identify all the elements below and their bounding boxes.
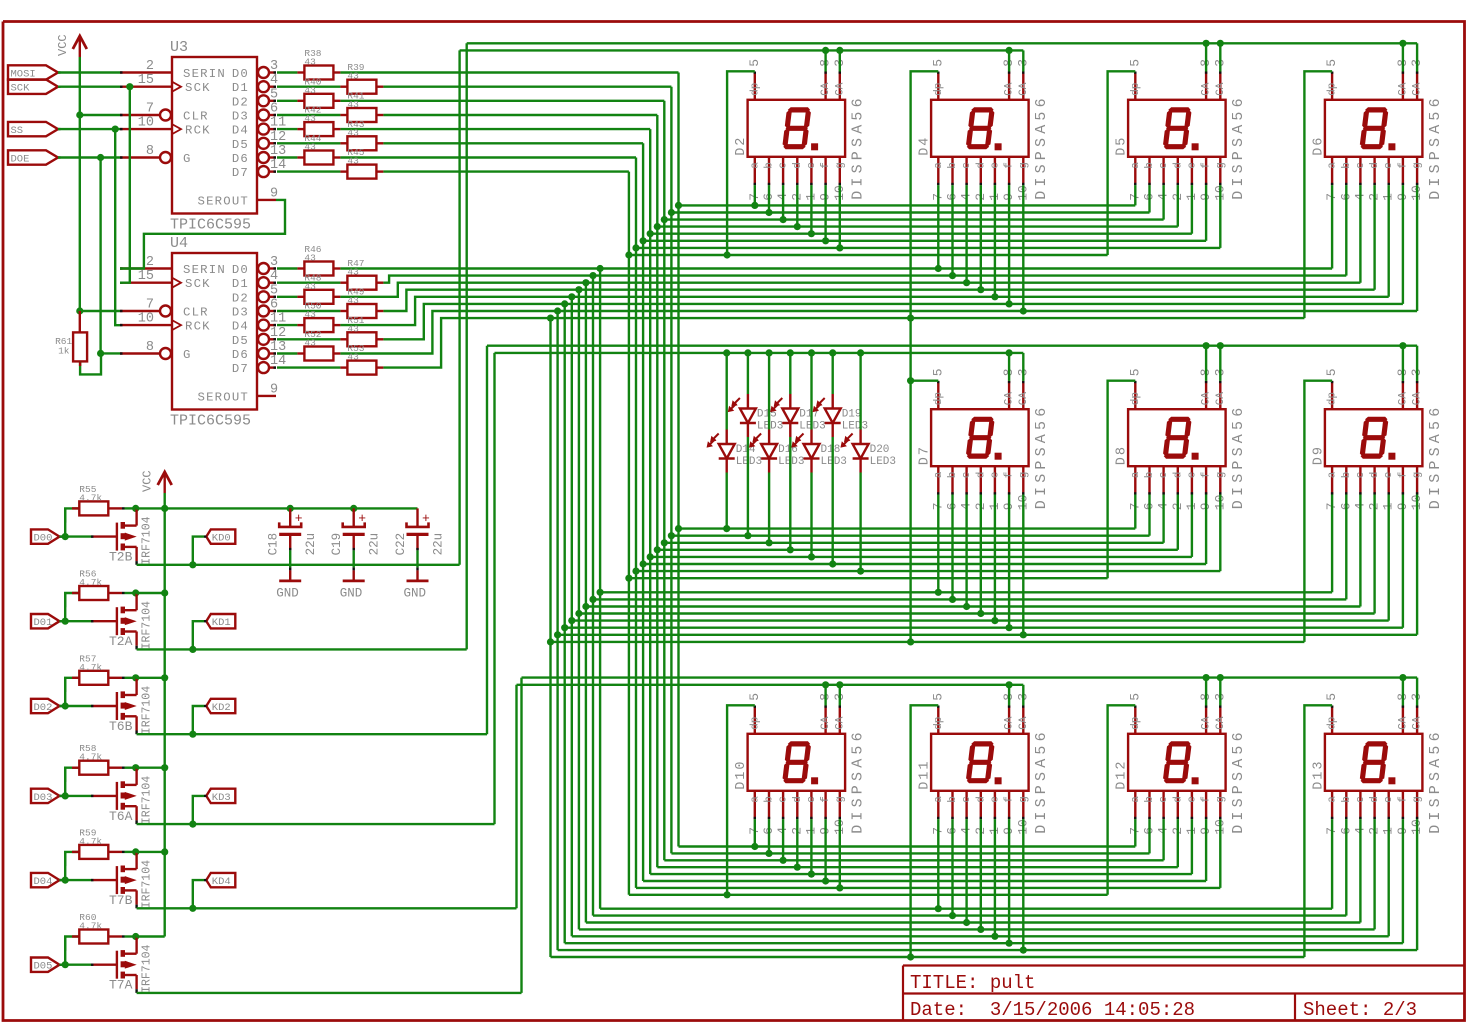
svg-text:dp: dp bbox=[749, 717, 761, 730]
svg-text:5: 5 bbox=[1324, 59, 1339, 67]
svg-text:CA: CA bbox=[1018, 392, 1030, 406]
svg-text:CA: CA bbox=[1004, 82, 1016, 96]
svg-text:15: 15 bbox=[138, 73, 154, 88]
svg-text:CA: CA bbox=[834, 82, 846, 96]
svg-text:C22: C22 bbox=[394, 533, 408, 556]
svg-text:SCK: SCK bbox=[185, 277, 211, 291]
svg-text:c: c bbox=[961, 796, 973, 803]
svg-text:CLR: CLR bbox=[183, 306, 209, 320]
svg-text:e: e bbox=[1186, 796, 1198, 803]
svg-text:d: d bbox=[792, 796, 804, 803]
svg-text:22u: 22u bbox=[368, 533, 382, 556]
svg-text:CA: CA bbox=[1201, 716, 1213, 730]
svg-text:Date: 3/15/2006 14:05:28: Date: 3/15/2006 14:05:28 bbox=[910, 999, 1195, 1021]
svg-text:43: 43 bbox=[304, 338, 316, 349]
svg-text:D6: D6 bbox=[232, 348, 249, 362]
svg-text:6: 6 bbox=[270, 298, 278, 313]
svg-text:IRF7104: IRF7104 bbox=[141, 516, 154, 564]
svg-text:f: f bbox=[1004, 162, 1016, 169]
svg-text:D5: D5 bbox=[232, 138, 249, 152]
svg-text:D11: D11 bbox=[918, 759, 933, 789]
svg-text:5: 5 bbox=[930, 693, 945, 701]
svg-text:CA: CA bbox=[1412, 716, 1424, 730]
svg-text:D7: D7 bbox=[232, 166, 249, 180]
svg-text:a: a bbox=[1327, 471, 1339, 478]
svg-text:C18: C18 bbox=[267, 533, 281, 556]
svg-text:5: 5 bbox=[747, 693, 762, 701]
svg-text:T6B: T6B bbox=[109, 719, 133, 734]
svg-text:a: a bbox=[1327, 796, 1339, 803]
svg-text:KD1: KD1 bbox=[212, 617, 231, 629]
svg-text:d: d bbox=[975, 472, 987, 479]
svg-text:KD4: KD4 bbox=[212, 876, 231, 888]
svg-text:CA: CA bbox=[1004, 716, 1016, 730]
svg-text:b: b bbox=[1341, 796, 1353, 803]
svg-text:8: 8 bbox=[146, 144, 154, 159]
svg-text:2: 2 bbox=[146, 255, 154, 270]
svg-text:dp: dp bbox=[1130, 392, 1142, 405]
svg-text:e: e bbox=[989, 162, 1001, 169]
svg-text:CA: CA bbox=[1215, 82, 1227, 96]
svg-text:a: a bbox=[749, 162, 761, 169]
svg-text:4.7k: 4.7k bbox=[79, 662, 102, 673]
svg-text:e: e bbox=[806, 796, 818, 803]
svg-text:DISPSA56: DISPSA56 bbox=[1230, 728, 1247, 834]
svg-text:D13: D13 bbox=[1311, 759, 1326, 789]
svg-text:+: + bbox=[358, 511, 366, 526]
svg-text:c: c bbox=[778, 796, 790, 803]
svg-text:CA: CA bbox=[1397, 82, 1409, 96]
svg-text:1k: 1k bbox=[58, 345, 70, 356]
svg-text:dp: dp bbox=[1327, 392, 1339, 405]
svg-text:D1: D1 bbox=[232, 81, 249, 95]
svg-text:CA: CA bbox=[1412, 82, 1424, 96]
svg-text:g: g bbox=[1412, 162, 1424, 169]
svg-text:a: a bbox=[933, 471, 945, 478]
svg-text:D1: D1 bbox=[232, 277, 249, 291]
svg-text:10: 10 bbox=[138, 116, 154, 131]
svg-text:f: f bbox=[1201, 796, 1213, 803]
svg-text:G: G bbox=[183, 152, 192, 166]
svg-text:43: 43 bbox=[347, 323, 359, 334]
svg-text:43: 43 bbox=[347, 127, 359, 138]
svg-text:43: 43 bbox=[304, 113, 316, 124]
svg-text:43: 43 bbox=[347, 156, 359, 167]
svg-text:4: 4 bbox=[270, 73, 278, 88]
svg-text:7: 7 bbox=[146, 102, 154, 117]
svg-text:RCK: RCK bbox=[185, 320, 211, 334]
svg-text:a: a bbox=[1130, 796, 1142, 803]
svg-text:DISPSA56: DISPSA56 bbox=[850, 94, 867, 200]
svg-text:CA: CA bbox=[1397, 716, 1409, 730]
svg-text:9: 9 bbox=[270, 382, 278, 397]
svg-text:d: d bbox=[1172, 162, 1184, 169]
svg-text:D01: D01 bbox=[34, 617, 53, 629]
svg-text:22u: 22u bbox=[432, 533, 446, 556]
svg-text:D0: D0 bbox=[232, 67, 249, 81]
svg-text:43: 43 bbox=[304, 142, 316, 153]
svg-text:CA: CA bbox=[820, 716, 832, 730]
svg-text:SS: SS bbox=[11, 125, 24, 137]
svg-text:TITLE: pult: TITLE: pult bbox=[910, 972, 1035, 994]
svg-text:D05: D05 bbox=[34, 961, 53, 973]
svg-text:dp: dp bbox=[933, 83, 945, 96]
svg-text:g: g bbox=[1215, 796, 1227, 803]
svg-text:CA: CA bbox=[1215, 716, 1227, 730]
svg-text:g: g bbox=[834, 162, 846, 169]
svg-text:g: g bbox=[834, 796, 846, 803]
svg-text:g: g bbox=[1412, 796, 1424, 803]
svg-text:DISPSA56: DISPSA56 bbox=[1033, 728, 1050, 834]
svg-text:e: e bbox=[989, 472, 1001, 479]
svg-text:D00: D00 bbox=[34, 533, 53, 545]
svg-text:43: 43 bbox=[304, 253, 316, 264]
svg-text:TPIC6C595: TPIC6C595 bbox=[170, 217, 251, 234]
svg-text:Sheet: 2/3: Sheet: 2/3 bbox=[1303, 999, 1417, 1021]
svg-text:D19: D19 bbox=[842, 409, 862, 421]
svg-text:5: 5 bbox=[1324, 693, 1339, 701]
svg-text:b: b bbox=[947, 162, 959, 169]
svg-text:d: d bbox=[1172, 472, 1184, 479]
svg-text:T2A: T2A bbox=[109, 634, 133, 649]
svg-text:D4: D4 bbox=[232, 320, 249, 334]
svg-text:b: b bbox=[764, 162, 776, 169]
svg-text:D3: D3 bbox=[232, 110, 249, 124]
svg-text:e: e bbox=[1383, 162, 1395, 169]
svg-text:5: 5 bbox=[930, 368, 945, 376]
svg-text:g: g bbox=[1018, 796, 1030, 803]
svg-text:CA: CA bbox=[1201, 392, 1213, 406]
svg-text:b: b bbox=[1341, 162, 1353, 169]
svg-text:VCC: VCC bbox=[141, 470, 155, 492]
svg-text:D3: D3 bbox=[232, 306, 249, 320]
svg-text:DISPSA56: DISPSA56 bbox=[1230, 404, 1247, 510]
svg-text:LED3: LED3 bbox=[870, 456, 896, 468]
svg-text:c: c bbox=[961, 472, 973, 479]
svg-text:f: f bbox=[820, 162, 832, 169]
svg-text:KD2: KD2 bbox=[212, 702, 231, 714]
svg-text:dp: dp bbox=[1327, 717, 1339, 730]
svg-text:d: d bbox=[1172, 796, 1184, 803]
svg-text:a: a bbox=[933, 796, 945, 803]
svg-text:8: 8 bbox=[146, 340, 154, 355]
svg-text:+: + bbox=[295, 511, 303, 526]
svg-text:D12: D12 bbox=[1115, 759, 1130, 789]
svg-text:U3: U3 bbox=[170, 39, 188, 56]
svg-text:IRF7104: IRF7104 bbox=[141, 776, 154, 824]
svg-text:c: c bbox=[1355, 796, 1367, 803]
svg-text:5: 5 bbox=[1127, 693, 1142, 701]
svg-text:a: a bbox=[749, 796, 761, 803]
svg-text:5: 5 bbox=[270, 283, 278, 298]
svg-text:10: 10 bbox=[138, 312, 154, 327]
svg-text:d: d bbox=[792, 162, 804, 169]
svg-text:D0: D0 bbox=[232, 263, 249, 277]
svg-text:GND: GND bbox=[276, 586, 299, 600]
svg-text:d: d bbox=[1369, 472, 1381, 479]
svg-text:CA: CA bbox=[1397, 392, 1409, 406]
svg-text:IRF7104: IRF7104 bbox=[141, 860, 154, 908]
svg-text:D04: D04 bbox=[34, 876, 53, 888]
svg-text:g: g bbox=[1412, 472, 1424, 479]
svg-text:DISPSA56: DISPSA56 bbox=[1427, 404, 1444, 510]
svg-text:43: 43 bbox=[347, 295, 359, 306]
svg-text:IRF7104: IRF7104 bbox=[141, 944, 154, 992]
svg-text:b: b bbox=[1341, 472, 1353, 479]
svg-text:d: d bbox=[975, 796, 987, 803]
svg-text:43: 43 bbox=[347, 99, 359, 110]
svg-text:DISPSA56: DISPSA56 bbox=[1427, 94, 1444, 200]
svg-text:SCK: SCK bbox=[11, 83, 31, 95]
svg-text:c: c bbox=[1158, 796, 1170, 803]
svg-text:D6: D6 bbox=[1311, 136, 1326, 156]
svg-text:dp: dp bbox=[749, 83, 761, 96]
svg-text:CA: CA bbox=[1018, 82, 1030, 96]
svg-text:D4: D4 bbox=[918, 136, 933, 156]
svg-text:DISPSA56: DISPSA56 bbox=[850, 728, 867, 834]
svg-text:SCK: SCK bbox=[185, 81, 211, 95]
svg-text:5: 5 bbox=[1127, 59, 1142, 67]
svg-text:c: c bbox=[1158, 162, 1170, 169]
svg-text:5: 5 bbox=[747, 59, 762, 67]
svg-text:e: e bbox=[806, 162, 818, 169]
svg-text:d: d bbox=[975, 162, 987, 169]
svg-text:D18: D18 bbox=[821, 444, 841, 456]
svg-text:b: b bbox=[1144, 796, 1156, 803]
svg-text:D5: D5 bbox=[1115, 136, 1130, 156]
svg-text:D8: D8 bbox=[1115, 445, 1130, 465]
svg-text:2: 2 bbox=[146, 59, 154, 74]
svg-text:f: f bbox=[820, 796, 832, 803]
svg-text:CA: CA bbox=[1018, 716, 1030, 730]
svg-text:g: g bbox=[1018, 162, 1030, 169]
svg-text:c: c bbox=[961, 162, 973, 169]
svg-text:43: 43 bbox=[304, 85, 316, 96]
svg-text:43: 43 bbox=[347, 71, 359, 82]
svg-text:D03: D03 bbox=[34, 792, 53, 804]
svg-text:4: 4 bbox=[270, 269, 278, 284]
svg-text:a: a bbox=[1130, 471, 1142, 478]
svg-text:G: G bbox=[183, 348, 192, 362]
svg-text:f: f bbox=[1397, 796, 1409, 803]
svg-text:c: c bbox=[778, 162, 790, 169]
svg-text:e: e bbox=[989, 796, 1001, 803]
svg-text:e: e bbox=[1383, 472, 1395, 479]
svg-text:DISPSA56: DISPSA56 bbox=[1230, 94, 1247, 200]
svg-text:4.7k: 4.7k bbox=[79, 836, 102, 847]
svg-text:D6: D6 bbox=[232, 152, 249, 166]
svg-text:b: b bbox=[764, 796, 776, 803]
svg-text:GND: GND bbox=[404, 586, 427, 600]
svg-text:KD3: KD3 bbox=[212, 792, 231, 804]
svg-text:SERIN: SERIN bbox=[183, 67, 226, 81]
svg-text:CA: CA bbox=[820, 82, 832, 96]
svg-text:b: b bbox=[947, 796, 959, 803]
svg-text:dp: dp bbox=[1130, 83, 1142, 96]
svg-text:g: g bbox=[1215, 472, 1227, 479]
svg-text:f: f bbox=[1397, 162, 1409, 169]
svg-text:c: c bbox=[1355, 162, 1367, 169]
svg-text:D9: D9 bbox=[1311, 445, 1326, 465]
svg-text:43: 43 bbox=[304, 57, 316, 68]
svg-text:CA: CA bbox=[1215, 392, 1227, 406]
svg-text:4.7k: 4.7k bbox=[79, 577, 102, 588]
svg-text:D4: D4 bbox=[232, 124, 249, 138]
svg-text:D5: D5 bbox=[232, 334, 249, 348]
svg-text:KD0: KD0 bbox=[212, 533, 231, 545]
svg-text:f: f bbox=[1201, 472, 1213, 479]
svg-text:f: f bbox=[1397, 472, 1409, 479]
svg-text:LED3: LED3 bbox=[842, 421, 868, 433]
svg-text:D7: D7 bbox=[232, 362, 249, 376]
svg-text:+: + bbox=[422, 511, 430, 526]
svg-text:SEROUT: SEROUT bbox=[198, 194, 249, 208]
svg-text:dp: dp bbox=[1327, 83, 1339, 96]
svg-text:6: 6 bbox=[270, 102, 278, 117]
svg-text:f: f bbox=[1201, 162, 1213, 169]
svg-text:a: a bbox=[1130, 162, 1142, 169]
svg-text:a: a bbox=[933, 162, 945, 169]
svg-text:DISPSA56: DISPSA56 bbox=[1033, 404, 1050, 510]
svg-text:SEROUT: SEROUT bbox=[198, 390, 249, 404]
svg-text:g: g bbox=[1018, 472, 1030, 479]
svg-text:D2: D2 bbox=[232, 95, 249, 109]
svg-text:5: 5 bbox=[270, 87, 278, 102]
svg-text:c: c bbox=[1158, 472, 1170, 479]
svg-text:C19: C19 bbox=[330, 533, 344, 556]
svg-text:c: c bbox=[1355, 472, 1367, 479]
svg-text:4.7k: 4.7k bbox=[79, 921, 102, 932]
svg-text:CA: CA bbox=[834, 716, 846, 730]
svg-text:CA: CA bbox=[1412, 392, 1424, 406]
svg-text:D2: D2 bbox=[232, 291, 249, 305]
svg-text:43: 43 bbox=[347, 352, 359, 363]
svg-text:GND: GND bbox=[340, 586, 363, 600]
svg-text:43: 43 bbox=[304, 281, 316, 292]
svg-text:dp: dp bbox=[933, 717, 945, 730]
svg-text:43: 43 bbox=[347, 267, 359, 278]
svg-text:f: f bbox=[1004, 472, 1016, 479]
svg-text:5: 5 bbox=[1127, 368, 1142, 376]
svg-text:e: e bbox=[1186, 472, 1198, 479]
svg-text:15: 15 bbox=[138, 269, 154, 284]
svg-text:7: 7 bbox=[146, 298, 154, 313]
svg-text:d: d bbox=[1369, 162, 1381, 169]
svg-text:dp: dp bbox=[1130, 717, 1142, 730]
svg-text:U4: U4 bbox=[170, 235, 188, 252]
svg-text:a: a bbox=[1327, 162, 1339, 169]
svg-text:22u: 22u bbox=[304, 533, 318, 556]
svg-text:dp: dp bbox=[933, 392, 945, 405]
svg-text:D2: D2 bbox=[734, 136, 749, 156]
svg-text:TPIC6C595: TPIC6C595 bbox=[170, 413, 251, 430]
svg-text:f: f bbox=[1004, 796, 1016, 803]
svg-text:RCK: RCK bbox=[185, 124, 211, 138]
svg-text:3: 3 bbox=[270, 255, 278, 270]
svg-text:T2B: T2B bbox=[109, 550, 133, 565]
svg-text:5: 5 bbox=[1324, 368, 1339, 376]
svg-text:43: 43 bbox=[304, 309, 316, 320]
svg-text:T7A: T7A bbox=[109, 978, 133, 993]
svg-text:e: e bbox=[1383, 796, 1395, 803]
svg-text:CA: CA bbox=[1004, 392, 1016, 406]
svg-text:CA: CA bbox=[1201, 82, 1213, 96]
svg-text:4.7k: 4.7k bbox=[79, 752, 102, 763]
svg-text:d: d bbox=[1369, 796, 1381, 803]
svg-text:b: b bbox=[1144, 472, 1156, 479]
svg-text:b: b bbox=[947, 472, 959, 479]
svg-text:DISPSA56: DISPSA56 bbox=[1427, 728, 1444, 834]
svg-text:CLR: CLR bbox=[183, 110, 209, 124]
svg-text:5: 5 bbox=[930, 59, 945, 67]
svg-text:e: e bbox=[1186, 162, 1198, 169]
svg-text:D7: D7 bbox=[918, 445, 933, 465]
svg-text:D10: D10 bbox=[734, 759, 749, 789]
svg-text:DOE: DOE bbox=[11, 154, 30, 166]
svg-text:IRF7104: IRF7104 bbox=[141, 601, 154, 649]
svg-text:3: 3 bbox=[270, 59, 278, 74]
svg-text:DISPSA56: DISPSA56 bbox=[1033, 94, 1050, 200]
svg-text:IRF7104: IRF7104 bbox=[141, 686, 154, 734]
svg-text:D02: D02 bbox=[34, 702, 53, 714]
svg-text:SERIN: SERIN bbox=[183, 263, 226, 277]
svg-text:VCC: VCC bbox=[56, 34, 70, 56]
svg-text:T7B: T7B bbox=[109, 893, 133, 908]
svg-text:4.7k: 4.7k bbox=[79, 492, 102, 503]
svg-text:g: g bbox=[1215, 162, 1227, 169]
svg-text:T6A: T6A bbox=[109, 809, 133, 824]
svg-text:b: b bbox=[1144, 162, 1156, 169]
svg-text:D20: D20 bbox=[870, 444, 890, 456]
